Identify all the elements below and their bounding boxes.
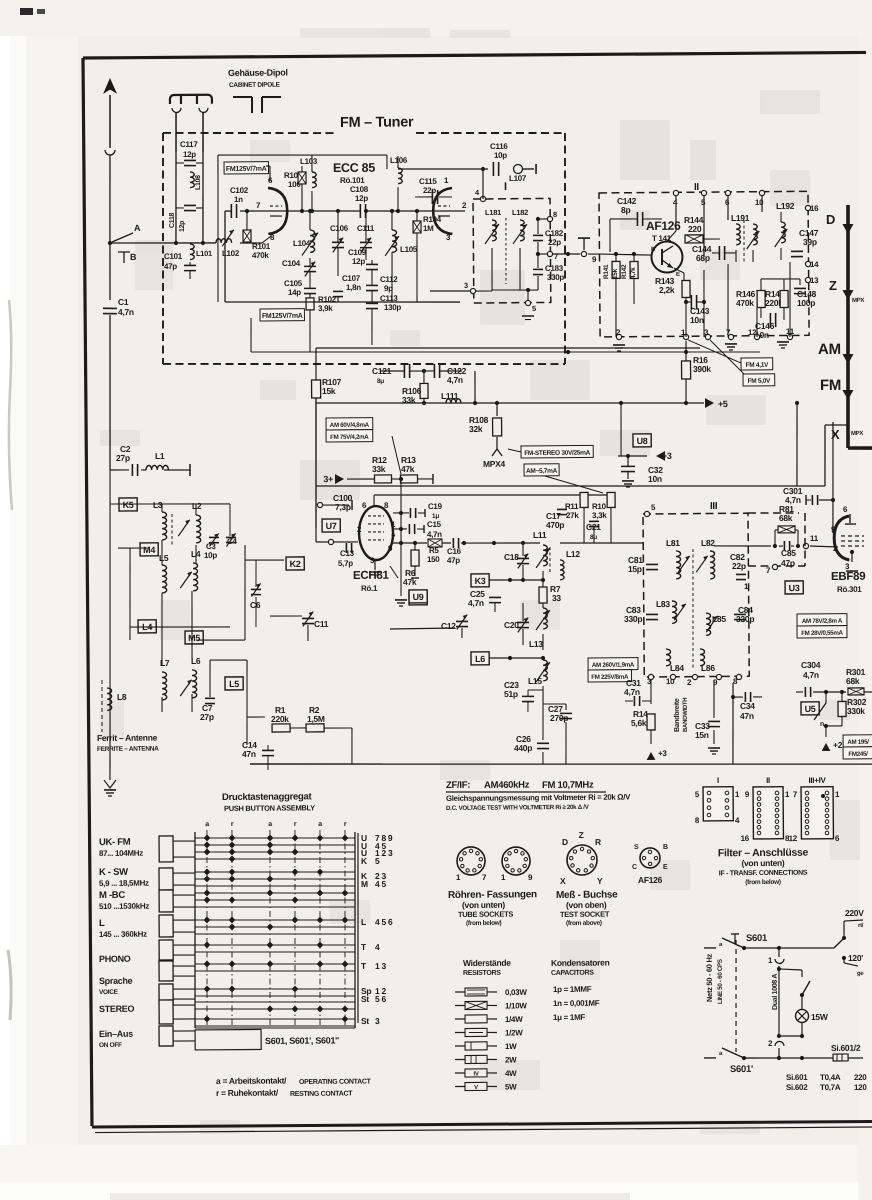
svg-text:a: a: [268, 821, 272, 828]
svg-text:CABINET DIPOLE: CABINET DIPOLE: [229, 82, 281, 89]
svg-text:FM 4,1V: FM 4,1V: [746, 362, 769, 369]
svg-text:Bandbreite: Bandbreite: [674, 698, 681, 732]
svg-text:FM: FM: [820, 377, 841, 394]
svg-text:68p: 68p: [696, 253, 710, 263]
svg-text:33k: 33k: [372, 464, 386, 474]
svg-text:PHONO: PHONO: [99, 954, 131, 964]
svg-text:150: 150: [427, 555, 440, 564]
svg-text:16: 16: [741, 834, 750, 843]
svg-text:5,7p: 5,7p: [338, 559, 353, 568]
svg-text:27k: 27k: [566, 511, 579, 520]
svg-text:D: D: [562, 837, 568, 847]
svg-text:OPERATING CONTACT: OPERATING CONTACT: [299, 1078, 372, 1086]
svg-text:5: 5: [375, 856, 380, 866]
svg-text:C183: C183: [545, 264, 564, 273]
svg-text:AM: AM: [818, 341, 841, 358]
svg-text:a: a: [205, 821, 209, 828]
svg-text:FM 5,0V: FM 5,0V: [748, 378, 771, 385]
svg-text:33k: 33k: [402, 395, 416, 405]
svg-text:C11: C11: [314, 619, 329, 629]
svg-text:C105: C105: [284, 279, 303, 288]
svg-text:E: E: [663, 864, 668, 871]
svg-text:L107: L107: [509, 174, 527, 183]
svg-text:510 ...1530kHz: 510 ...1530kHz: [99, 902, 149, 911]
svg-text:15p: 15p: [628, 564, 642, 574]
svg-text:3: 3: [464, 281, 468, 290]
svg-text:EBF89: EBF89: [831, 571, 865, 583]
svg-text:470k: 470k: [736, 298, 754, 308]
svg-text:C107: C107: [342, 274, 361, 283]
svg-text:M: M: [361, 879, 368, 889]
svg-text:Widerstände: Widerstände: [463, 958, 511, 968]
svg-text:ZF/IF:: ZF/IF:: [446, 780, 470, 791]
svg-text:IF - TRANSF. CONNECTIONS: IF - TRANSF. CONNECTIONS: [719, 870, 808, 878]
svg-text:R11: R11: [565, 502, 579, 511]
svg-text:M -BC: M -BC: [99, 890, 125, 901]
svg-text:rt/: rt/: [858, 923, 864, 929]
svg-text:51p: 51p: [504, 689, 518, 699]
svg-text:Y: Y: [597, 876, 603, 886]
svg-text:10n: 10n: [648, 474, 662, 484]
svg-text:440p: 440p: [514, 743, 532, 753]
svg-text:Rö.101: Rö.101: [340, 176, 365, 185]
svg-text:1/10W: 1/10W: [505, 1001, 527, 1010]
svg-text:130p: 130p: [384, 303, 402, 312]
svg-text:Rö.1: Rö.1: [361, 584, 378, 593]
svg-text:(from below): (from below): [745, 879, 781, 886]
svg-text:5,6k: 5,6k: [631, 718, 647, 728]
svg-text:C85: C85: [781, 548, 796, 558]
svg-text:C6: C6: [250, 600, 261, 610]
svg-text:L82: L82: [701, 538, 715, 548]
svg-text:8μ: 8μ: [377, 378, 384, 385]
svg-text:U8: U8: [637, 436, 648, 446]
svg-text:K5: K5: [123, 500, 134, 510]
svg-text:4,7n: 4,7n: [427, 530, 442, 539]
svg-text:PUSH BUTTON ASSEMBLY: PUSH BUTTON ASSEMBLY: [224, 803, 315, 813]
svg-text:C101: C101: [164, 252, 183, 261]
svg-text:470k: 470k: [252, 251, 270, 260]
svg-text:L83: L83: [656, 599, 670, 609]
svg-text:B: B: [663, 844, 668, 851]
svg-text:C106: C106: [330, 224, 349, 233]
svg-text:FM245/: FM245/: [848, 751, 868, 758]
svg-text:1,8n: 1,8n: [346, 283, 361, 292]
svg-text:C: C: [632, 864, 637, 871]
svg-text:C109: C109: [348, 248, 367, 257]
svg-text:+3: +3: [662, 451, 672, 461]
svg-text:47p: 47p: [447, 556, 460, 565]
svg-text:FM-STEREO 30V/25mA: FM-STEREO 30V/25mA: [524, 450, 590, 458]
svg-text:C20: C20: [504, 620, 519, 630]
svg-text:C182: C182: [545, 229, 564, 238]
svg-text:10p: 10p: [494, 151, 507, 160]
svg-text:C104: C104: [282, 259, 301, 268]
svg-text:68k: 68k: [846, 676, 860, 686]
svg-text:C117: C117: [180, 140, 198, 149]
svg-text:MPX: MPX: [852, 298, 864, 304]
svg-text:D.C. VOLTAGE TEST WITH VOL: D.C. VOLTAGE TEST WITH VOLTMETER Ri ≥ 20…: [446, 804, 590, 812]
svg-text:330p: 330p: [624, 614, 642, 624]
svg-text:K - SW: K - SW: [99, 867, 128, 878]
svg-text:X: X: [831, 427, 840, 442]
svg-text:13: 13: [810, 276, 819, 285]
svg-text:R5: R5: [429, 546, 440, 555]
svg-text:A: A: [134, 223, 141, 233]
svg-text:+3: +3: [658, 749, 667, 758]
svg-text:STEREO: STEREO: [99, 1004, 135, 1014]
svg-text:L8: L8: [117, 692, 127, 702]
svg-text:14p: 14p: [288, 288, 301, 297]
svg-text:220: 220: [854, 1073, 867, 1082]
svg-text:C12: C12: [441, 621, 456, 631]
svg-text:III: III: [710, 501, 718, 512]
svg-text:UK- FM: UK- FM: [99, 837, 131, 848]
svg-text:22p: 22p: [732, 561, 746, 571]
svg-text:C13: C13: [340, 549, 355, 558]
svg-text:L2: L2: [192, 501, 202, 511]
svg-text:11: 11: [810, 534, 819, 543]
svg-text:3+: 3+: [323, 474, 333, 484]
svg-text:TUBE SOCKETS: TUBE SOCKETS: [458, 910, 514, 919]
svg-text:I: I: [504, 181, 507, 193]
svg-text:n: n: [820, 721, 824, 728]
svg-text:145 ... 360kHz: 145 ... 360kHz: [99, 930, 147, 939]
svg-text:C102: C102: [230, 186, 249, 195]
svg-text:Ferrit – Antenne: Ferrit – Antenne: [97, 733, 158, 743]
svg-text:V: V: [474, 1085, 478, 1091]
svg-text:AM 195/: AM 195/: [847, 739, 869, 746]
svg-text:12p: 12p: [183, 150, 196, 159]
svg-text:12p: 12p: [352, 257, 365, 266]
svg-text:(von oben): (von oben): [566, 900, 607, 910]
svg-text:470p: 470p: [546, 520, 564, 530]
svg-text:MPX4: MPX4: [483, 459, 506, 469]
svg-text:12p: 12p: [355, 194, 368, 203]
svg-text:a = Arbeitskontakt/: a = Arbeitskontakt/: [216, 1075, 287, 1086]
svg-text:II: II: [694, 182, 700, 193]
svg-text:U3: U3: [789, 583, 800, 593]
svg-text:AM 78V/2,8m A: AM 78V/2,8m A: [802, 618, 843, 625]
svg-text:ECC 85: ECC 85: [333, 161, 375, 175]
svg-text:r = Ruhekontakt/: r = Ruhekontakt/: [216, 1087, 279, 1097]
svg-text:Sprache: Sprache: [99, 976, 133, 986]
svg-text:II: II: [766, 776, 770, 785]
svg-text:L7: L7: [160, 658, 170, 668]
svg-text:Kondensatoren: Kondensatoren: [551, 957, 610, 967]
svg-text:1μ: 1μ: [432, 513, 439, 520]
svg-text:L191: L191: [731, 213, 750, 223]
svg-text:16: 16: [810, 204, 819, 213]
svg-text:C18: C18: [504, 552, 519, 562]
svg-text:Gleichspannungsmessung mit V: Gleichspannungsmessung mit Voltmeter Ri …: [446, 793, 631, 803]
svg-text:M4: M4: [143, 545, 155, 555]
svg-text:TEST SOCKET: TEST SOCKET: [560, 910, 610, 919]
svg-text:FM 10,7MHz: FM 10,7MHz: [542, 780, 594, 791]
svg-text:R10: R10: [592, 502, 607, 511]
svg-text:330k: 330k: [847, 706, 865, 716]
svg-text:68k: 68k: [779, 513, 793, 523]
svg-text:C34: C34: [740, 701, 755, 711]
svg-text:R104: R104: [423, 215, 442, 224]
svg-text:32k: 32k: [469, 424, 483, 434]
svg-text:(von unten): (von unten): [462, 900, 506, 910]
svg-text:D: D: [826, 212, 835, 227]
svg-text:FM 28V/0,55mA: FM 28V/0,55mA: [801, 630, 843, 637]
svg-text:120': 120': [848, 953, 863, 963]
svg-text:R: R: [595, 837, 601, 847]
svg-text:III+IV: III+IV: [808, 776, 826, 785]
svg-text:C15: C15: [427, 520, 442, 529]
svg-text:AM 60V/4,8mA: AM 60V/4,8mA: [330, 422, 370, 429]
svg-text:St: St: [361, 994, 369, 1004]
svg-text:22p: 22p: [423, 186, 436, 195]
svg-text:L101: L101: [196, 249, 212, 258]
svg-text:330p: 330p: [547, 273, 565, 282]
svg-text:15W: 15W: [811, 1012, 829, 1022]
svg-text:3,3k: 3,3k: [592, 511, 607, 520]
svg-text:15k: 15k: [322, 386, 336, 396]
svg-text:L5: L5: [229, 679, 239, 689]
svg-text:E: E: [676, 272, 680, 278]
svg-text:390k: 390k: [693, 364, 711, 374]
svg-text:1p = 1MMF: 1p = 1MMF: [553, 985, 592, 994]
svg-text:L182: L182: [512, 208, 528, 217]
svg-text:5,9 ... 18,5MHz: 5,9 ... 18,5MHz: [99, 879, 149, 888]
svg-text:C112: C112: [380, 275, 398, 284]
svg-text:S: S: [634, 844, 639, 851]
svg-text:L85: L85: [712, 614, 726, 624]
svg-text:Drucktastenaggregat: Drucktastenaggregat: [222, 791, 313, 803]
svg-text:Ein–Aus: Ein–Aus: [99, 1029, 133, 1039]
svg-text:47n: 47n: [740, 711, 754, 721]
svg-text:Si.602: Si.602: [786, 1083, 808, 1092]
svg-text:FM125V/7mA: FM125V/7mA: [262, 313, 303, 320]
svg-text:4,7n: 4,7n: [803, 670, 819, 680]
svg-text:R142: R142: [621, 264, 628, 279]
svg-text:RESISTORS: RESISTORS: [463, 970, 501, 977]
svg-text:Netz 50 - 60 Hz: Netz 50 - 60 Hz: [705, 953, 714, 1002]
svg-text:C19: C19: [428, 502, 443, 511]
svg-text:C118: C118: [169, 212, 176, 228]
svg-text:39p: 39p: [803, 237, 817, 247]
svg-text:7,3p: 7,3p: [335, 502, 351, 512]
svg-text:AM 260V/1,9mA: AM 260V/1,9mA: [592, 662, 635, 669]
svg-text:L: L: [361, 917, 366, 927]
svg-text:Rö.301: Rö.301: [837, 585, 862, 594]
svg-text:L: L: [99, 918, 105, 929]
svg-text:+2: +2: [833, 740, 843, 750]
svg-text:220V: 220V: [845, 908, 864, 918]
svg-text:2,2k: 2,2k: [659, 285, 675, 295]
svg-text:0,03W: 0,03W: [505, 988, 527, 997]
svg-text:4,7n: 4,7n: [118, 307, 134, 317]
svg-text:1W: 1W: [505, 1042, 517, 1051]
svg-text:U5: U5: [805, 704, 816, 714]
svg-text:Dual 1008 A: Dual 1008 A: [772, 974, 779, 1010]
svg-text:2W: 2W: [505, 1055, 517, 1064]
svg-text:AM460kHz: AM460kHz: [484, 780, 530, 791]
svg-text:L6: L6: [475, 654, 485, 664]
svg-text:100p: 100p: [797, 298, 815, 308]
svg-text:L15: L15: [528, 676, 542, 686]
svg-text:C116: C116: [490, 142, 508, 151]
svg-text:3,9k: 3,9k: [318, 304, 333, 313]
svg-text:VOICE: VOICE: [99, 989, 119, 996]
svg-text:B: B: [130, 252, 137, 262]
svg-text:L106: L106: [390, 156, 408, 165]
svg-text:220: 220: [688, 224, 702, 234]
svg-text:T0,4A: T0,4A: [820, 1073, 841, 1082]
svg-text:47p: 47p: [164, 262, 177, 271]
svg-text:4,7n: 4,7n: [624, 687, 640, 697]
svg-text:AM~5,7mA: AM~5,7mA: [526, 468, 558, 475]
svg-text:L81: L81: [666, 538, 680, 548]
svg-text:L5: L5: [159, 553, 169, 563]
svg-text:L13: L13: [529, 639, 543, 649]
svg-text:10p: 10p: [204, 551, 217, 560]
svg-text:8p: 8p: [621, 205, 631, 215]
svg-text:K3: K3: [475, 576, 486, 586]
svg-text:1/4W: 1/4W: [505, 1015, 523, 1024]
svg-text:R141: R141: [603, 264, 610, 279]
svg-text:4,7n: 4,7n: [447, 375, 463, 385]
svg-text:(from below): (from below): [466, 920, 502, 927]
svg-text:22p: 22p: [548, 238, 561, 247]
svg-text:(from above): (from above): [566, 920, 602, 927]
svg-text:12p: 12p: [179, 221, 186, 232]
svg-text:CAPACITORS: CAPACITORS: [551, 970, 594, 977]
svg-text:L108: L108: [195, 175, 202, 190]
svg-text:K2: K2: [290, 559, 301, 569]
svg-text:12: 12: [789, 834, 798, 843]
svg-text:8: 8: [553, 210, 557, 219]
svg-text:L181: L181: [485, 208, 501, 217]
svg-text:4,7k: 4,7k: [630, 267, 637, 279]
svg-text:C1: C1: [118, 297, 129, 307]
svg-text:Si.601/2: Si.601/2: [831, 1043, 861, 1053]
svg-text:Gehäuse-Dipol: Gehäuse-Dipol: [228, 67, 288, 77]
svg-text:47n: 47n: [242, 749, 256, 759]
svg-text:RESTING CONTACT: RESTING CONTACT: [290, 1091, 353, 1098]
svg-text:FERRITE – ANTENNA: FERRITE – ANTENNA: [97, 746, 159, 753]
svg-text:5 6: 5 6: [375, 994, 387, 1004]
svg-text:BANDWIDTH: BANDWIDTH: [683, 698, 689, 732]
svg-text:L12: L12: [566, 549, 580, 559]
svg-text:IV: IV: [473, 1072, 478, 1078]
svg-text:Z: Z: [829, 278, 837, 293]
svg-text:U9: U9: [413, 592, 424, 602]
svg-text:5W: 5W: [505, 1082, 517, 1091]
svg-text:4W: 4W: [505, 1069, 517, 1078]
svg-text:120: 120: [854, 1083, 867, 1092]
svg-text:FM125V/7mA: FM125V/7mA: [226, 166, 267, 173]
svg-text:10: 10: [755, 198, 764, 207]
svg-text:1/2W: 1/2W: [505, 1028, 523, 1037]
svg-text:1,5M: 1,5M: [307, 714, 325, 724]
svg-text:FM 75V/4,2mA: FM 75V/4,2mA: [330, 434, 369, 441]
svg-text:ge: ge: [857, 971, 864, 977]
svg-text:1n: 1n: [234, 195, 243, 204]
svg-text:C115: C115: [419, 177, 437, 186]
svg-text:27p: 27p: [116, 453, 130, 463]
svg-text:5: 5: [532, 304, 536, 313]
svg-text:MPX: MPX: [851, 431, 863, 437]
svg-text:S601': S601': [730, 1064, 753, 1075]
svg-text:(von unten): (von unten): [741, 858, 785, 868]
svg-text:+5: +5: [718, 399, 728, 409]
svg-text:4 5 6: 4 5 6: [375, 917, 393, 927]
svg-text:X: X: [560, 876, 566, 886]
svg-text:T0,7A: T0,7A: [820, 1083, 841, 1092]
svg-text:LINE 50 - 60 CPS: LINE 50 - 60 CPS: [717, 959, 724, 1004]
svg-text:FM 225V/8mA: FM 225V/8mA: [591, 674, 629, 681]
svg-text:4,7n: 4,7n: [468, 598, 484, 608]
svg-text:L84: L84: [670, 663, 684, 673]
svg-text:220k: 220k: [271, 714, 289, 724]
svg-text:1μ = 1MF: 1μ = 1MF: [553, 1013, 586, 1022]
svg-text:ON OFF: ON OFF: [99, 1042, 122, 1049]
svg-text:10n: 10n: [690, 315, 704, 325]
svg-text:7: 7: [554, 252, 558, 261]
svg-text:L105: L105: [400, 245, 418, 254]
svg-text:15k: 15k: [612, 268, 619, 279]
svg-text:a: a: [318, 821, 322, 828]
svg-text:1M: 1M: [423, 224, 434, 233]
svg-text:S601, S601', S601'': S601, S601', S601'': [265, 1035, 339, 1046]
svg-text:C304: C304: [801, 660, 821, 670]
svg-text:1 3: 1 3: [375, 961, 387, 971]
svg-text:AF126: AF126: [638, 875, 663, 885]
svg-text:M5: M5: [188, 633, 200, 643]
svg-text:4: 4: [375, 942, 380, 952]
svg-text:1n = 0,001MF: 1n = 0,001MF: [553, 999, 600, 1008]
svg-text:Z: Z: [579, 830, 584, 840]
svg-text:U7: U7: [326, 521, 337, 531]
svg-text:L1: L1: [155, 451, 165, 461]
svg-text:33: 33: [552, 593, 562, 603]
svg-text:47k: 47k: [401, 464, 415, 474]
svg-text:L11: L11: [533, 530, 547, 540]
svg-text:Si.601: Si.601: [786, 1073, 808, 1082]
svg-text:C108: C108: [350, 185, 369, 194]
svg-text:St: St: [361, 1016, 369, 1026]
svg-text:27p: 27p: [200, 712, 214, 722]
svg-text:87... 104MHz: 87... 104MHz: [99, 849, 143, 858]
svg-text:14: 14: [810, 260, 819, 269]
svg-text:FM – Tuner: FM – Tuner: [340, 114, 414, 131]
svg-text:I: I: [717, 776, 719, 785]
svg-text:4 5: 4 5: [375, 879, 387, 889]
svg-text:15n: 15n: [695, 730, 709, 740]
svg-text:C16: C16: [447, 547, 462, 556]
svg-text:L103: L103: [300, 157, 318, 166]
svg-text:L192: L192: [776, 201, 795, 211]
svg-text:3: 3: [375, 1016, 380, 1026]
svg-text:S601: S601: [746, 933, 768, 944]
